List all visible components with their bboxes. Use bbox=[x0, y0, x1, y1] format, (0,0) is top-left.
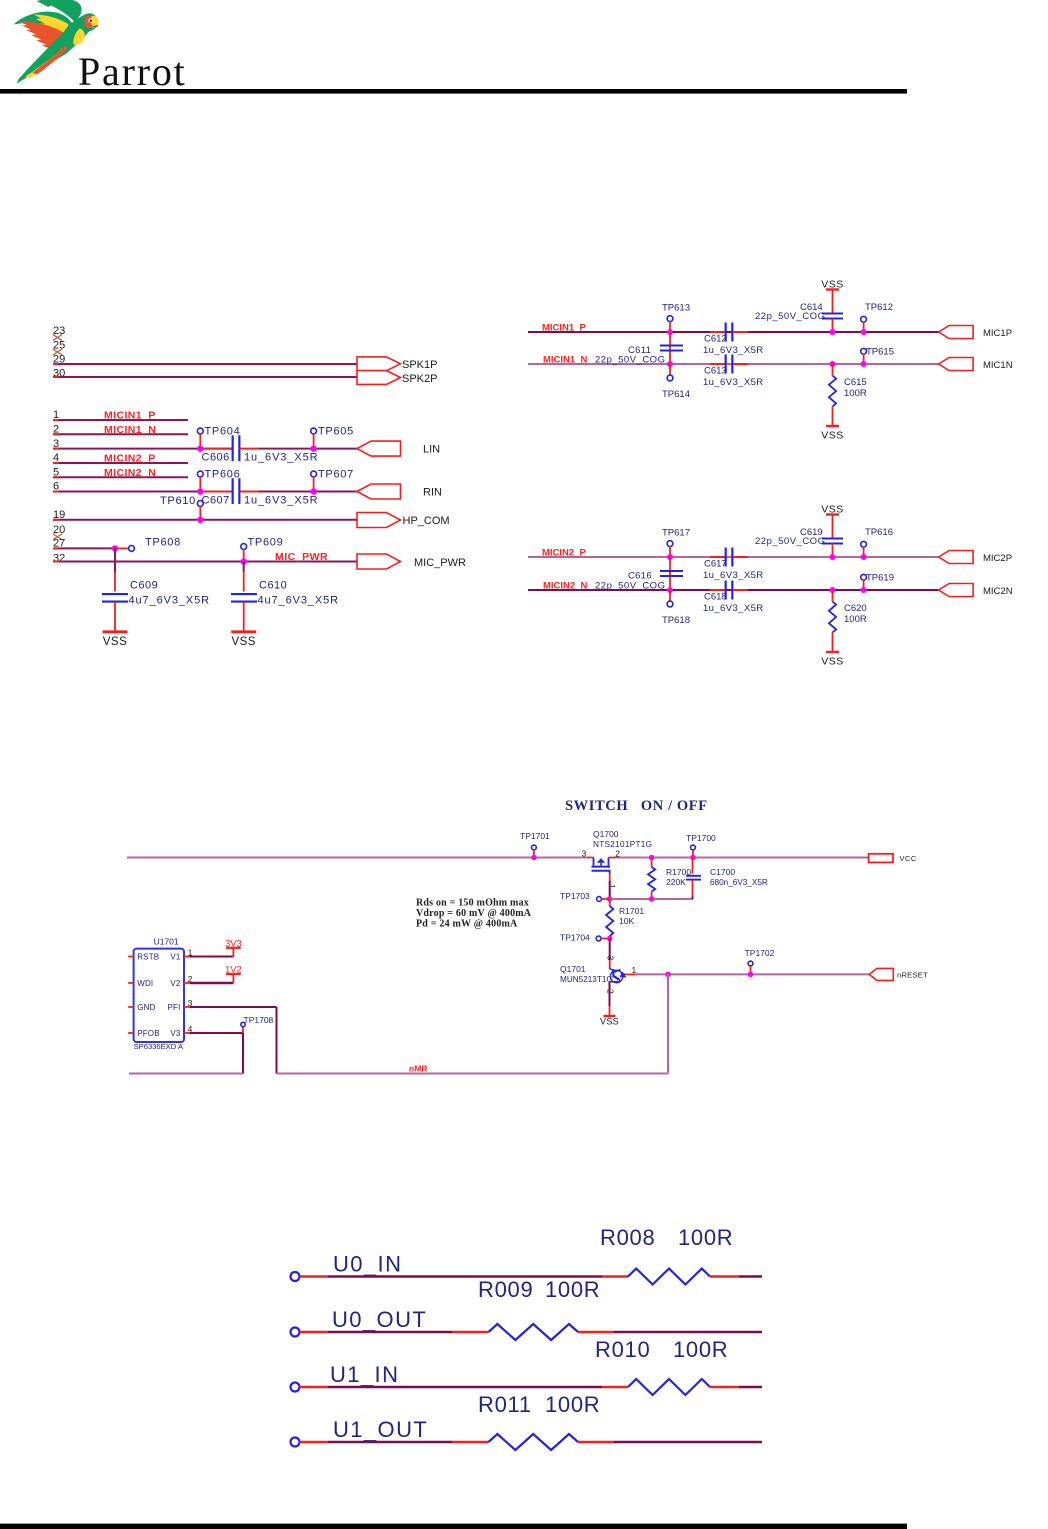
wire TP609 junction down bbox=[243, 562, 245, 573]
junction TP610/wire19 bbox=[197, 517, 203, 523]
test point TP607 bbox=[311, 471, 317, 477]
op-amp U1701 box bbox=[134, 949, 184, 1042]
wire PFI down to nMR bbox=[276, 1007, 278, 1074]
header rule bbox=[0, 89, 907, 94]
svg-text:GND: GND bbox=[137, 1003, 155, 1012]
wire U1_OUT right bbox=[578, 1441, 614, 1444]
svg-text:TP607: TP607 bbox=[318, 469, 354, 481]
wire U1_IN left bbox=[300, 1386, 329, 1389]
svg-text:32: 32 bbox=[53, 552, 65, 564]
svg-text:TP1701: TP1701 bbox=[520, 831, 550, 841]
svg-text:C615: C615 bbox=[844, 377, 867, 388]
port SPK2P bbox=[357, 371, 401, 385]
junction C615 bbox=[830, 361, 836, 367]
svg-text:MICIN1_N: MICIN1_N bbox=[104, 424, 156, 436]
svg-text:1u_6V3_X5R: 1u_6V3_X5R bbox=[703, 345, 764, 356]
svg-text:1: 1 bbox=[607, 884, 617, 889]
port MIC1N bbox=[939, 358, 974, 371]
junction TP616 bbox=[861, 554, 867, 560]
svg-text:10K: 10K bbox=[619, 916, 634, 926]
junction TP1701 bbox=[531, 855, 537, 861]
svg-text:Pd = 24 mW @ 400mA: Pd = 24 mW @ 400mA bbox=[416, 918, 518, 929]
ground VSS Q1701 bbox=[604, 1015, 616, 1017]
junction TP618 bbox=[667, 587, 673, 593]
svg-text:RIN: RIN bbox=[423, 487, 442, 499]
capacitor C618 bbox=[710, 589, 725, 591]
U1701 left pin RSTB bbox=[128, 956, 133, 958]
resistor R011 100R bbox=[489, 1434, 579, 1450]
svg-text:MIC_PWR: MIC_PWR bbox=[414, 557, 466, 569]
svg-text:20: 20 bbox=[53, 524, 65, 536]
wire gate node bbox=[610, 898, 652, 900]
Parrot company logo (bird) bbox=[14, 0, 99, 84]
svg-text:U1_IN: U1_IN bbox=[330, 1362, 399, 1387]
wire pin32 MIC_PWR bbox=[53, 561, 357, 563]
wire nMR bbox=[277, 1073, 669, 1075]
wire pin30 to SPK2P bbox=[53, 376, 357, 378]
test point TP1708 bbox=[242, 1026, 244, 1033]
svg-text:V2: V2 bbox=[170, 979, 181, 988]
wire pin5 MICIN2_N bbox=[53, 476, 188, 478]
svg-text:R010: R010 bbox=[595, 1337, 650, 1362]
port MIC1P bbox=[939, 326, 974, 339]
test point TP617 bbox=[667, 541, 673, 547]
svg-text:MIC_PWR: MIC_PWR bbox=[275, 551, 328, 563]
junction TP613 bbox=[667, 329, 673, 335]
wire MICIN1_N bbox=[528, 363, 939, 365]
pin 23 no-connect X bbox=[53, 335, 62, 341]
resistor R009 100R bbox=[489, 1324, 579, 1340]
svg-text:VSS: VSS bbox=[103, 636, 128, 648]
svg-text:MICIN2_P: MICIN2_P bbox=[542, 548, 586, 559]
port RIN bbox=[357, 484, 401, 499]
port nRESET bbox=[869, 968, 893, 980]
wire C610 to ground bbox=[243, 602, 245, 631]
svg-text:MIC2P: MIC2P bbox=[983, 553, 1012, 564]
svg-text:U1701: U1701 bbox=[154, 937, 179, 947]
wire C607 to RIN bbox=[259, 491, 357, 493]
resistor C615 100R bbox=[832, 364, 834, 376]
svg-text:220K: 220K bbox=[666, 877, 686, 887]
wire pin1 MICIN1_P bbox=[53, 419, 188, 421]
test point TP610 bbox=[197, 501, 203, 507]
junction TP1700/C1700 bbox=[690, 855, 696, 861]
wire MICIN2_P bbox=[528, 556, 939, 558]
svg-text:MICIN1_N: MICIN1_N bbox=[543, 355, 587, 366]
svg-text:PFI: PFI bbox=[167, 1003, 180, 1012]
junction R1700 bottom bbox=[649, 896, 655, 902]
capacitor C617 bbox=[710, 556, 725, 558]
capacitor C613 bbox=[710, 363, 725, 365]
svg-text:22p_50V_COG: 22p_50V_COG bbox=[595, 581, 665, 592]
svg-text:100R: 100R bbox=[545, 1277, 600, 1302]
svg-text:100R: 100R bbox=[673, 1337, 728, 1362]
node U0_OUT terminal bbox=[291, 1328, 300, 1337]
node U1_OUT terminal bbox=[291, 1438, 300, 1447]
svg-text:1V2: 1V2 bbox=[225, 965, 242, 976]
wire U0_IN left bbox=[300, 1275, 329, 1278]
svg-text:VSS: VSS bbox=[821, 430, 844, 442]
svg-text:TP613: TP613 bbox=[662, 303, 690, 314]
svg-text:nRESET: nRESET bbox=[897, 971, 928, 980]
junction gate/TP1703 bbox=[607, 896, 613, 902]
node U1_IN terminal bbox=[291, 1383, 300, 1392]
svg-text:TP604: TP604 bbox=[205, 426, 241, 438]
svg-text:TP619: TP619 bbox=[866, 573, 894, 584]
test point TP605 bbox=[311, 428, 317, 434]
wire TP1704 to Q1701 bbox=[609, 939, 611, 961]
wire U1_OUT left bbox=[300, 1441, 329, 1444]
junction TP609/wire32 bbox=[241, 558, 247, 564]
wire U0_OUT right bbox=[578, 1331, 614, 1334]
test point TP616 bbox=[861, 541, 867, 547]
capacitor C616 bbox=[669, 557, 671, 590]
svg-text:TP606: TP606 bbox=[205, 469, 241, 481]
ground VSS C609 bbox=[103, 630, 128, 633]
svg-text:1u_6V3_X5R: 1u_6V3_X5R bbox=[703, 570, 764, 581]
svg-text:1u_6V3_X5R: 1u_6V3_X5R bbox=[244, 494, 318, 506]
svg-text:U0_OUT: U0_OUT bbox=[332, 1307, 427, 1332]
junction pin27/C609 bbox=[112, 545, 118, 551]
svg-text:SPK1P: SPK1P bbox=[402, 359, 437, 371]
pin 25 no-connect X bbox=[53, 349, 62, 355]
svg-text:C612: C612 bbox=[704, 334, 727, 345]
ground VSS C610 bbox=[231, 630, 256, 633]
wire V3 down bbox=[242, 1033, 244, 1074]
resistor R010 100R bbox=[628, 1379, 710, 1395]
pin 20 no-connect X bbox=[53, 534, 62, 540]
port MIC2N bbox=[939, 584, 974, 597]
test point TP615 bbox=[861, 348, 867, 354]
power 1V2 bbox=[226, 973, 241, 975]
svg-text:Rds on = 150 mOhm max: Rds on = 150 mOhm max bbox=[416, 898, 529, 909]
svg-text:TP1700: TP1700 bbox=[686, 833, 716, 843]
svg-text:1u_6V3_X5R: 1u_6V3_X5R bbox=[244, 451, 318, 463]
svg-text:TP617: TP617 bbox=[662, 528, 690, 539]
svg-text:TP1703: TP1703 bbox=[560, 891, 590, 901]
resistor R1701 10K bbox=[609, 899, 611, 906]
wire pin4 MICIN2_P bbox=[53, 462, 188, 464]
ground VSS C615 bbox=[826, 425, 839, 427]
svg-text:TP618: TP618 bbox=[662, 615, 690, 626]
wire C606 to LIN bbox=[259, 448, 357, 450]
svg-text:100R: 100R bbox=[844, 614, 867, 625]
power 3V3 bbox=[226, 947, 241, 949]
wire U1701 pin4 V3 bbox=[184, 1032, 190, 1034]
svg-text:100R: 100R bbox=[678, 1225, 733, 1250]
wire pin27 junction down bbox=[114, 548, 116, 572]
svg-text:R1701: R1701 bbox=[619, 906, 644, 916]
wire MICIN2_N bbox=[528, 589, 939, 591]
svg-text:1u_6V3_X5R: 1u_6V3_X5R bbox=[703, 603, 764, 614]
junction TP607/wire6 bbox=[310, 488, 316, 494]
svg-text:R009: R009 bbox=[478, 1277, 533, 1302]
svg-text:MIC1N: MIC1N bbox=[983, 360, 1013, 371]
ground VSS C620 bbox=[826, 651, 839, 653]
svg-text:3: 3 bbox=[582, 849, 587, 859]
svg-text:VSS: VSS bbox=[600, 1017, 619, 1027]
test point TP613 bbox=[667, 316, 673, 322]
test point TP612 bbox=[861, 316, 867, 322]
junction TP1704 bbox=[607, 936, 613, 942]
test point TP618 bbox=[669, 590, 671, 602]
test point TP609 bbox=[241, 544, 247, 550]
svg-text:TP612: TP612 bbox=[865, 302, 893, 313]
svg-text:TP616: TP616 bbox=[865, 527, 893, 538]
svg-text:U1_OUT: U1_OUT bbox=[333, 1417, 428, 1442]
svg-text:22p_50V_COG: 22p_50V_COG bbox=[755, 311, 825, 322]
wire U0_IN right bbox=[710, 1275, 739, 1278]
svg-text:TP605: TP605 bbox=[318, 426, 354, 438]
svg-text:SPK2P: SPK2P bbox=[402, 373, 437, 385]
wire pin3 to C606 bbox=[53, 448, 233, 450]
svg-text:TP1704: TP1704 bbox=[560, 933, 590, 943]
svg-text:VSS: VSS bbox=[231, 636, 256, 648]
capacitor C610 bbox=[231, 593, 257, 595]
svg-text:C606: C606 bbox=[202, 451, 230, 463]
capacitor C1700 bbox=[692, 858, 694, 874]
junction TP614 bbox=[667, 361, 673, 367]
svg-text:MICIN2_N: MICIN2_N bbox=[104, 467, 156, 479]
svg-text:100R: 100R bbox=[844, 388, 867, 399]
svg-text:U0_IN: U0_IN bbox=[333, 1252, 402, 1277]
resistor C620 100R bbox=[832, 590, 834, 602]
capacitor C614 bbox=[832, 290, 834, 314]
junction TP615 bbox=[861, 361, 867, 367]
junction TP604/wire3 bbox=[197, 445, 203, 451]
wire pin27 bbox=[53, 547, 115, 549]
resistor R008 100R bbox=[628, 1269, 710, 1285]
wire VCC rail bbox=[127, 857, 588, 859]
svg-text:Q1701: Q1701 bbox=[560, 964, 586, 974]
svg-text:680n_6V3_X5R: 680n_6V3_X5R bbox=[710, 878, 768, 887]
junction C619 bbox=[830, 554, 836, 560]
wire pin4 net bottom segment bbox=[129, 1073, 243, 1075]
svg-text:LIN: LIN bbox=[423, 444, 440, 456]
transistor Q1700 (P-MOSFET) bbox=[588, 857, 594, 859]
node U0_IN terminal bbox=[291, 1272, 300, 1281]
svg-text:22p_50V_COG: 22p_50V_COG bbox=[755, 536, 825, 547]
svg-text:MIC1P: MIC1P bbox=[983, 328, 1012, 339]
junction TP612 bbox=[861, 329, 867, 335]
svg-text:V3: V3 bbox=[170, 1029, 181, 1038]
svg-text:4u7_6V3_X5R: 4u7_6V3_X5R bbox=[258, 595, 339, 607]
wire pin29 to SPK1P bbox=[53, 363, 357, 365]
svg-text:22p_50V_COG: 22p_50V_COG bbox=[595, 355, 665, 366]
wire Q1701 collector to nRESET bbox=[626, 973, 635, 975]
svg-text:C607: C607 bbox=[202, 494, 230, 506]
svg-text:R011: R011 bbox=[478, 1392, 532, 1417]
svg-text:Parrot: Parrot bbox=[78, 49, 187, 94]
svg-text:HP_COM: HP_COM bbox=[403, 515, 450, 527]
svg-text:C609: C609 bbox=[130, 580, 158, 592]
junction TP617 bbox=[667, 554, 673, 560]
U1701 left pin GND bbox=[128, 1006, 133, 1008]
svg-text:C610: C610 bbox=[259, 580, 287, 592]
wire pin19 HP_COM bbox=[53, 519, 357, 521]
junction TP606/wire6 bbox=[197, 488, 203, 494]
svg-text:PFOB: PFOB bbox=[137, 1029, 160, 1038]
svg-text:MIC2N: MIC2N bbox=[983, 586, 1013, 597]
svg-text:MICIN1_P: MICIN1_P bbox=[542, 323, 586, 334]
test point TP606 bbox=[197, 471, 203, 477]
svg-text:1u_6V3_X5R: 1u_6V3_X5R bbox=[703, 377, 764, 388]
capacitor C619 bbox=[832, 515, 834, 539]
transistor Q1701 (NPN digital) bbox=[610, 970, 622, 982]
svg-text:SWITCH ON / OFF: SWITCH ON / OFF bbox=[565, 798, 708, 814]
port HP_COM bbox=[357, 513, 401, 528]
port SPK1P bbox=[357, 357, 401, 371]
wire pin2 MICIN1_N bbox=[53, 433, 188, 435]
svg-text:TP608: TP608 bbox=[145, 537, 181, 549]
junction C620 bbox=[830, 587, 836, 593]
capacitor C607 bbox=[232, 478, 234, 504]
resistor R1700 220K bbox=[651, 858, 653, 868]
junction TP605/wire3 bbox=[310, 445, 316, 451]
U1701 left pin PFOB bbox=[128, 1032, 133, 1034]
capacitor C611 bbox=[669, 332, 671, 364]
test point TP619 bbox=[861, 574, 867, 580]
U1701 left pin WDI bbox=[128, 982, 133, 984]
test point TP614 bbox=[669, 364, 671, 376]
svg-text:VSS: VSS bbox=[821, 656, 844, 668]
test point TP604 bbox=[197, 428, 203, 434]
port VCC bbox=[869, 854, 893, 863]
wire MICIN1_P bbox=[528, 331, 939, 333]
svg-text:3: 3 bbox=[606, 956, 616, 961]
svg-text:TP1702: TP1702 bbox=[745, 948, 775, 958]
svg-text:SP6336EXD A: SP6336EXD A bbox=[134, 1042, 184, 1051]
port MIC2P bbox=[939, 551, 974, 564]
svg-text:R008: R008 bbox=[600, 1225, 655, 1250]
svg-text:WDI: WDI bbox=[137, 979, 153, 988]
junction C614 bbox=[830, 329, 836, 335]
capacitor C609 bbox=[102, 593, 128, 595]
wire U1701 pin1 to 3V3 bbox=[184, 956, 190, 958]
svg-text:MICIN2_P: MICIN2_P bbox=[104, 453, 156, 465]
junction TP619 bbox=[861, 587, 867, 593]
svg-text:V1: V1 bbox=[170, 953, 181, 962]
svg-text:TP614: TP614 bbox=[662, 389, 690, 400]
wire U1701 pin2 to 1V2 bbox=[184, 982, 190, 984]
wire U0_OUT left bbox=[300, 1331, 329, 1334]
footer rule bbox=[0, 1524, 907, 1529]
port LIN bbox=[357, 441, 401, 456]
wire nRESET down to nMR bbox=[667, 974, 669, 1073]
svg-text:MUN5213T1G: MUN5213T1G bbox=[560, 975, 613, 984]
svg-text:4u7_6V3_X5R: 4u7_6V3_X5R bbox=[129, 595, 210, 607]
svg-text:NTS2101PT1G: NTS2101PT1G bbox=[593, 840, 652, 849]
wire U1_IN right bbox=[710, 1386, 739, 1389]
wire Q1700 gate down bbox=[609, 874, 611, 882]
svg-text:3V3: 3V3 bbox=[225, 938, 242, 949]
wire pin6 to C607 bbox=[53, 491, 233, 493]
svg-text:TP610: TP610 bbox=[160, 495, 196, 507]
svg-text:C617: C617 bbox=[704, 559, 727, 570]
svg-text:MICIN2_N: MICIN2_N bbox=[543, 581, 587, 592]
wire U1701 pin3 PFI bbox=[184, 1006, 190, 1008]
svg-text:RSTB: RSTB bbox=[137, 953, 159, 962]
wire C609 to ground bbox=[114, 602, 116, 631]
svg-text:C620: C620 bbox=[844, 603, 867, 614]
svg-text:C1700: C1700 bbox=[710, 867, 735, 877]
svg-text:VCC: VCC bbox=[900, 854, 917, 863]
junction R1700 top bbox=[649, 855, 655, 861]
svg-text:C613: C613 bbox=[704, 366, 727, 377]
svg-text:TP615: TP615 bbox=[866, 347, 894, 358]
junction TP1702 bbox=[748, 972, 754, 978]
test point TP608 bbox=[118, 547, 129, 549]
svg-text:TP609: TP609 bbox=[248, 537, 284, 549]
capacitor C606 bbox=[232, 435, 234, 461]
svg-text:100R: 100R bbox=[545, 1392, 600, 1417]
svg-text:nMR: nMR bbox=[409, 1064, 427, 1074]
svg-text:TP1708: TP1708 bbox=[244, 1015, 274, 1025]
svg-text:MICIN1_P: MICIN1_P bbox=[104, 410, 156, 422]
svg-text:C618: C618 bbox=[704, 592, 727, 603]
svg-text:Q1700: Q1700 bbox=[593, 829, 619, 839]
svg-text:2: 2 bbox=[615, 849, 620, 859]
port MIC_PWR bbox=[357, 554, 401, 569]
capacitor C612 bbox=[710, 331, 725, 333]
junction nRESET branch bbox=[665, 972, 671, 978]
wire Q1701 emitter to VSS bbox=[609, 982, 611, 1006]
